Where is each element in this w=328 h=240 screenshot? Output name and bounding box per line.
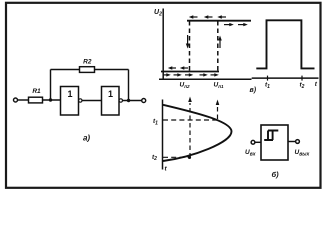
dashed threshold Up1: [217, 21, 219, 71]
input voltage curve: [163, 105, 232, 161]
node junction: [127, 99, 130, 102]
wire: [82, 100, 101, 102]
inverter bubble D1: [79, 99, 82, 102]
axis U1: [159, 78, 252, 80]
output high line: [187, 20, 251, 22]
dashed level t1: [163, 119, 219, 121]
axis arrow right 1: [163, 73, 171, 76]
output terminal block: [296, 140, 300, 144]
direction arrow left low 2: [180, 66, 188, 69]
wire: [51, 69, 80, 71]
direction arrow left low 1: [168, 66, 176, 69]
dashed Up2 vertical with arrow: [188, 97, 192, 158]
logic gate D1: [61, 87, 79, 116]
axis arrow right 4: [200, 73, 208, 76]
hysteresis symbol: [264, 131, 278, 141]
wire: [43, 99, 61, 101]
direction arrow right 1: [224, 23, 234, 26]
node dot t2: [188, 156, 191, 159]
input terminal: [14, 98, 18, 102]
resistor R1: [29, 88, 43, 103]
logic gate D2: [102, 87, 120, 116]
wire: [123, 100, 142, 102]
arrow down on Up2: [186, 35, 190, 49]
svg-text:R1: R1: [32, 88, 41, 95]
wire: [288, 141, 296, 143]
svg-text:R2: R2: [83, 59, 92, 66]
tick t2: [301, 76, 303, 81]
wire: [95, 69, 129, 71]
node junction: [49, 98, 52, 101]
wire: [18, 99, 29, 101]
axis t input: [162, 100, 164, 170]
wire: [128, 70, 130, 101]
inverter bubble D2: [119, 99, 122, 102]
arrow up on Up1: [218, 36, 222, 49]
output terminal: [142, 99, 146, 103]
axis U2: [162, 9, 164, 81]
pulse waveform: [256, 20, 314, 68]
axis arrow right 3: [185, 73, 193, 76]
axis arrow right 2: [174, 73, 182, 76]
axis arrow right 5: [211, 73, 219, 76]
input terminal block: [251, 140, 255, 144]
dashed threshold Up2: [189, 21, 191, 71]
svg-text:1: 1: [108, 89, 113, 99]
direction arrow left 3: [217, 15, 226, 18]
axis t pulse: [252, 77, 319, 79]
block schmitt trigger: [261, 125, 288, 160]
dashed Up1 vertical with arrow: [216, 100, 220, 120]
svg-text:в): в): [250, 87, 257, 94]
output low line: [161, 71, 219, 73]
wire: [50, 70, 52, 101]
direction arrow left 2: [204, 15, 213, 18]
resistor R2: [80, 59, 95, 73]
direction arrow right 2: [238, 23, 248, 26]
tick t1: [267, 76, 269, 81]
direction arrow left 1: [189, 15, 198, 18]
svg-text:а): а): [83, 134, 90, 143]
svg-text:б): б): [272, 170, 280, 179]
dashed level t2: [163, 156, 188, 158]
wire: [255, 141, 261, 143]
svg-text:1: 1: [67, 89, 72, 99]
